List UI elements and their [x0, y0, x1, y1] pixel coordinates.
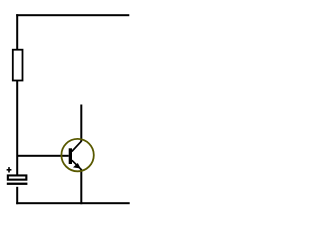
- transistor Q1 emitter stroke: [72, 160, 82, 170]
- wire top rail: [16, 14, 129, 16]
- capacitor C1 bottom plate: [7, 183, 28, 185]
- wire base branch: [18, 155, 69, 157]
- resistor R1: [13, 50, 23, 81]
- wire emitter lead: [80, 169, 82, 204]
- wire collector lead: [80, 105, 82, 142]
- wire bottom rail: [16, 202, 130, 204]
- wire left rail lower segment: [16, 187, 18, 204]
- capacitor C1 polarity plus: [7, 167, 12, 172]
- transistor Q1 base bar: [69, 148, 72, 164]
- transistor Q1 body circle: [61, 139, 93, 171]
- transistor Q1 collector stroke: [72, 141, 82, 152]
- capacitor C1 top plate: [8, 175, 27, 179]
- wire left rail upper segment: [16, 14, 18, 49]
- wire left rail middle segment: [16, 81, 18, 175]
- transistor Q1 emitter arrow: [73, 163, 81, 169]
